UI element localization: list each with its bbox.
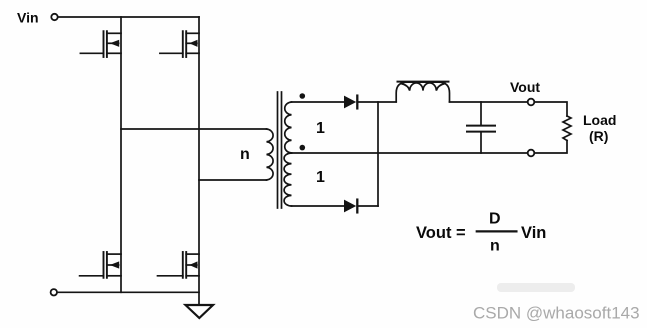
diode D2 bbox=[344, 200, 357, 213]
svg-text:1: 1 bbox=[316, 169, 325, 186]
terminal Vout top bbox=[528, 99, 535, 106]
terminal Vout bottom bbox=[528, 150, 535, 157]
formula Vout = D/n Vin bbox=[416, 211, 546, 255]
svg-text:CSDN @whaosoft143: CSDN @whaosoft143 bbox=[473, 304, 640, 323]
svg-text:Vin: Vin bbox=[521, 224, 546, 242]
transformer T1 primary winding bbox=[267, 129, 274, 180]
wire Vout top to load bbox=[534, 102, 567, 116]
polarity dot center bbox=[300, 145, 306, 151]
transistor Q1 bbox=[80, 31, 121, 57]
transistor Q2 bbox=[160, 31, 199, 57]
svg-text:n: n bbox=[490, 238, 500, 255]
transformer T1 secondary winding bottom bbox=[284, 153, 291, 206]
svg-text:Vin: Vin bbox=[17, 10, 39, 26]
wire left column bbox=[120, 17, 122, 292]
terminal return bbox=[51, 289, 57, 295]
wire D2 to junction bbox=[357, 205, 378, 207]
wire right column bbox=[198, 17, 200, 305]
ground bbox=[186, 305, 214, 318]
svg-text:Vout: Vout bbox=[510, 79, 540, 95]
watermark smudge bbox=[497, 283, 575, 292]
svg-text:1: 1 bbox=[316, 120, 325, 137]
diode D1 bbox=[344, 96, 357, 109]
resistor Load R bbox=[563, 116, 571, 141]
polarity dot top bbox=[300, 93, 306, 99]
svg-text:Vout =: Vout = bbox=[416, 224, 466, 242]
wire top rail bbox=[58, 16, 199, 18]
transistor Q4 bbox=[158, 252, 200, 278]
wire rectifier junction bbox=[377, 102, 379, 206]
transistor Q3 bbox=[80, 252, 121, 278]
wire inductor to Vout bbox=[450, 101, 528, 103]
svg-text:D: D bbox=[489, 211, 501, 228]
terminal Vin bbox=[51, 14, 57, 20]
svg-text:n: n bbox=[240, 146, 250, 163]
wire D1 to inductor bbox=[357, 101, 396, 103]
transformer T1 secondary winding top bbox=[285, 102, 292, 153]
wire secondary bottom lead bbox=[292, 205, 345, 207]
wire primary top lead bbox=[121, 128, 267, 130]
wire center tap return bbox=[292, 152, 528, 154]
svg-text:Load: Load bbox=[583, 112, 616, 128]
wire load bottom bbox=[534, 141, 567, 154]
capacitor C1 bbox=[467, 102, 495, 153]
svg-text:(R): (R) bbox=[589, 128, 608, 144]
inductor L1 bbox=[396, 82, 449, 102]
wire primary bottom lead bbox=[199, 179, 267, 181]
transformer T1 core bbox=[278, 92, 282, 208]
wire bottom rail bbox=[58, 291, 200, 293]
wire secondary top lead bbox=[292, 101, 345, 103]
